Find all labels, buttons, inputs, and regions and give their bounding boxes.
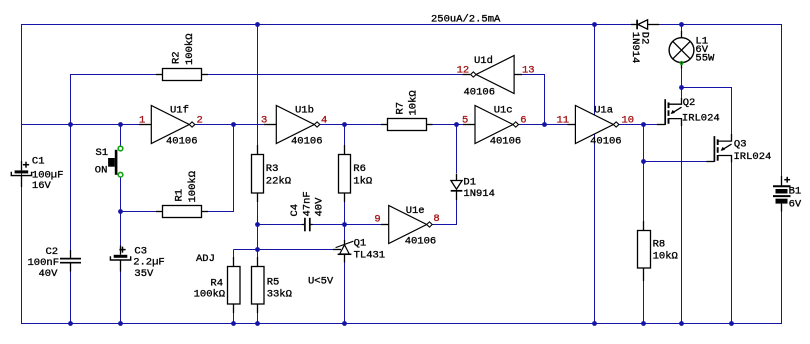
wire C2 bottom to rail (70, 271, 72, 324)
resistor R4 100k body (228, 257, 241, 313)
wire lamp bottom to node y87 (681, 68, 683, 88)
node bottom rail x233 (231, 321, 236, 326)
svg-text:5: 5 (462, 115, 468, 127)
svg-text:U1c: U1c (494, 104, 513, 116)
svg-text:R1: R1 (174, 189, 186, 202)
wire U1d in from right, down to main row (521, 75, 545, 125)
node R3 bottom y224 (255, 222, 260, 227)
wire left border (21, 24, 23, 324)
node main row x456 pin5 (454, 122, 459, 127)
svg-text:1kΩ: 1kΩ (353, 175, 372, 187)
svg-text:40106: 40106 (490, 135, 522, 147)
svg-text:10kΩ: 10kΩ (653, 251, 678, 263)
wire R6 top lead from main row (344, 125, 346, 147)
svg-text:22kΩ: 22kΩ (266, 175, 291, 187)
svg-text:55W: 55W (695, 52, 715, 64)
svg-text:C1: C1 (32, 156, 45, 168)
wire R1 row (120, 211, 157, 213)
node bottom rail x257 (255, 321, 260, 326)
svg-text:9: 9 (374, 214, 380, 226)
lamp L1 (669, 31, 694, 69)
wire right border below B1 (781, 211, 783, 324)
node bottom rail x344 (342, 321, 347, 326)
wire C4 to R6 node to U1e input (312, 224, 382, 226)
svg-text:S1: S1 (96, 147, 109, 159)
svg-text:R8: R8 (653, 239, 666, 251)
op-amp U1c inverter 40106 (463, 106, 519, 144)
svg-text:40106: 40106 (590, 135, 622, 147)
capacitor C3 2.2uF electrolytic (110, 246, 130, 272)
wire R3 bottom to node (257, 201, 259, 225)
node main row x233 pin2 (231, 122, 236, 127)
svg-text:R5: R5 (267, 277, 280, 289)
node top rail x681 (679, 22, 684, 27)
svg-text:10kΩ: 10kΩ (408, 90, 420, 115)
svg-text:33kΩ: 33kΩ (267, 288, 292, 300)
wire R4 top lead (233, 250, 235, 259)
resistor R3 22k body (252, 145, 264, 202)
resistor R7 10k body (381, 119, 433, 131)
svg-text:U1f: U1f (170, 104, 189, 116)
resistor R6 1k body (339, 145, 351, 202)
wire U1c out to U1a in (519, 124, 568, 126)
op-amp U1a inverter 40106 (568, 106, 619, 144)
diode D1 1N914 (451, 174, 463, 201)
wire main row to U1f input (21, 124, 140, 126)
svg-text:U<5V: U<5V (308, 275, 334, 287)
wire C3 bottom to rail (120, 271, 122, 324)
svg-text:6V: 6V (789, 199, 802, 211)
svg-text:D1: D1 (463, 177, 476, 189)
resistor R8 10k body (638, 221, 651, 281)
wire C2 top x70 (70, 125, 72, 251)
wire Q3 source to bottom rail (731, 162, 733, 324)
node divider y249 (255, 247, 260, 252)
wire R7 to U1c in (431, 124, 468, 126)
node main row x344 pin4 (342, 122, 347, 127)
svg-text:IRL024: IRL024 (734, 151, 772, 163)
wire D1 top to main row (456, 125, 458, 174)
node top rail x257 (255, 22, 260, 27)
svg-text:13: 13 (522, 64, 535, 76)
node bottom rail x70 (68, 321, 73, 326)
node S1 bottom R1 (118, 209, 123, 214)
node bottom rail x120 (118, 321, 123, 326)
wire S1 top (120, 125, 122, 147)
svg-text:40106: 40106 (464, 87, 496, 99)
wire R8 bottom to rail (643, 280, 645, 324)
wire Q3 gate row y161 (644, 161, 708, 163)
diode D2 1N914 (631, 20, 659, 30)
svg-text:6: 6 (520, 115, 526, 127)
node bottom rail x594 (592, 321, 597, 326)
svg-text:R2: R2 (171, 51, 183, 64)
svg-text:1N914: 1N914 (629, 32, 641, 64)
wire U1a out to Q2 gate (619, 124, 658, 126)
wire Q2 drain vertical (681, 88, 683, 99)
wire R6 bottom to node (344, 201, 346, 225)
svg-text:R7: R7 (395, 102, 407, 115)
shunt regulator Q1 TL431 (333, 240, 353, 263)
svg-text:100kΩ: 100kΩ (194, 288, 226, 300)
wire bottom rail (21, 323, 782, 325)
wire vertical x594 top to bottom rail (594, 24, 596, 324)
svg-text:Q3: Q3 (734, 138, 747, 150)
node R6 bottom y224 (342, 222, 347, 227)
wire node y87 to Q3 drain (682, 88, 732, 135)
svg-text:B1: B1 (789, 186, 802, 198)
wire top rail right of D2 (659, 24, 782, 26)
svg-text:Q2: Q2 (683, 97, 696, 109)
capacitor C4 47nF (302, 218, 313, 232)
wire U1b out to R7 (320, 124, 382, 126)
node main row x120 (118, 122, 123, 127)
svg-text:U1d: U1d (474, 55, 493, 67)
svg-text:8: 8 (433, 213, 439, 225)
wire U1f out to U1b in (195, 124, 269, 126)
wire R1 right up to main row (207, 125, 234, 212)
node main row x70 (68, 122, 73, 127)
svg-text:35V: 35V (134, 268, 154, 280)
node main row x544 (542, 122, 547, 127)
wire R5 bottom to rail (257, 312, 259, 325)
node Q3 gate y161 (641, 159, 646, 164)
op-amp U1d inverter 40106 mirrored (463, 56, 523, 94)
wire node2 to R5 (257, 250, 259, 259)
node main row x643.5 (641, 122, 646, 127)
wire y74.5 left of R2 (70, 74, 157, 76)
resistor R5 33k body (252, 257, 265, 313)
wire right border above B1 (781, 24, 783, 177)
wire Q1 cathode from node (344, 225, 346, 242)
op-amp U1e inverter 40106 (381, 206, 432, 244)
wire R4 top row y249.5 (234, 249, 334, 251)
svg-text:2.2µF: 2.2µF (133, 256, 165, 268)
node bottom rail x643 (641, 321, 646, 326)
wire R4 bottom to rail (233, 312, 235, 325)
svg-text:U1b: U1b (295, 104, 314, 116)
switch S1 (108, 146, 123, 177)
svg-text:3: 3 (261, 115, 267, 127)
svg-text:4: 4 (321, 115, 327, 127)
svg-text:R6: R6 (353, 163, 366, 175)
wire node row y224.5 to C4 (258, 224, 303, 226)
wire R2 to U1d output (207, 74, 463, 76)
wire Q3 gate node to R8 (643, 162, 645, 223)
capacitor C2 100nF (60, 250, 81, 272)
wire S1 bottom to R1 node (120, 177, 122, 212)
svg-text:C4: C4 (289, 204, 301, 217)
node top rail x594 (592, 22, 597, 27)
wire vertical x257 from top rail to R3 (257, 24, 259, 146)
svg-text:100kΩ: 100kΩ (184, 33, 196, 65)
op-amp U1f inverter 40106 (139, 106, 195, 144)
node bottom rail x681 (679, 321, 684, 326)
svg-text:250uA/2.5mA: 250uA/2.5mA (431, 13, 501, 25)
wire Q2 source to bottom rail (681, 126, 683, 324)
svg-text:TL431: TL431 (354, 250, 386, 262)
svg-text:47nF: 47nF (301, 191, 313, 216)
svg-text:U1e: U1e (406, 205, 425, 217)
wire U1e out to D1 bottom (432, 200, 456, 225)
wire R1 node to C3 (120, 212, 122, 247)
svg-text:2: 2 (197, 115, 203, 127)
svg-text:U1a: U1a (594, 104, 613, 116)
svg-text:12: 12 (457, 64, 470, 76)
svg-text:40106: 40106 (166, 135, 198, 147)
resistor R1 100k body (156, 206, 208, 218)
svg-text:40106: 40106 (291, 135, 323, 147)
svg-text:100kΩ: 100kΩ (187, 171, 199, 203)
wire R2 branch vertical x70 (70, 74, 72, 125)
wire U1a out node down to Q3 gate node (643, 125, 645, 162)
svg-text:ON: ON (95, 165, 108, 177)
svg-text:40V: 40V (39, 268, 59, 280)
svg-text:40106: 40106 (405, 235, 437, 247)
op-amp U1b inverter 40106 (264, 106, 320, 144)
svg-text:40V: 40V (313, 197, 325, 217)
resistor R2 100k body (156, 69, 208, 81)
svg-text:Q1: Q1 (354, 238, 367, 250)
wire node to node2 x257 (257, 225, 259, 250)
svg-text:10: 10 (622, 115, 635, 127)
svg-text:11: 11 (557, 115, 570, 127)
svg-text:16V: 16V (32, 180, 52, 192)
wire top rail left of D2 (21, 24, 631, 26)
svg-text:ADJ: ADJ (196, 253, 215, 265)
capacitor C1 100uF electrolytic (11, 161, 31, 187)
wire Q1 anode to rail (344, 262, 346, 324)
svg-text:1N914: 1N914 (463, 188, 495, 200)
MOSFET Q3 IRL024 (707, 134, 732, 162)
svg-text:1: 1 (139, 115, 145, 127)
svg-text:IRL024: IRL024 (682, 113, 720, 125)
MOSFET Q2 IRL024 (657, 98, 682, 126)
wire lamp top from rail (681, 24, 683, 32)
battery B1 6V (773, 176, 791, 212)
node bottom rail x731 (729, 321, 734, 326)
svg-text:R3: R3 (266, 163, 279, 175)
node lamp bottom y87 (679, 85, 684, 90)
